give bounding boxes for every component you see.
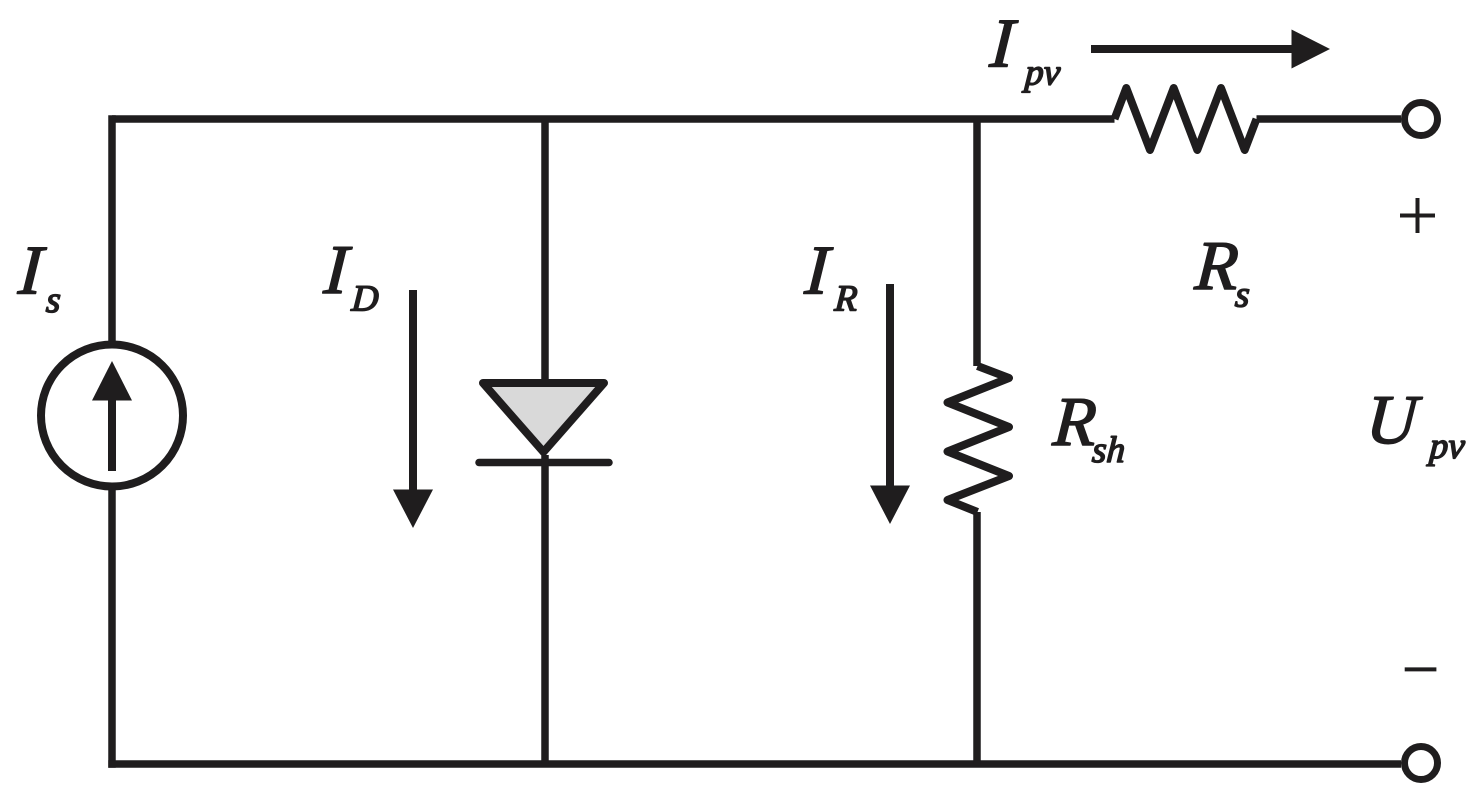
label I_s (17, 248, 47, 294)
wire shunt branch upper (973, 119, 981, 366)
wire left branch lower (108, 486, 116, 768)
arrow I_pv (1091, 30, 1330, 69)
minus sign (1405, 667, 1437, 671)
label I_D (323, 247, 353, 293)
label I_pv (989, 21, 1019, 67)
arrow I_R (870, 284, 910, 524)
label R_s (1194, 243, 1238, 289)
wire top rail left (112, 115, 1115, 123)
wire diode branch lower (541, 455, 549, 764)
diode cathode bar (479, 459, 609, 467)
label R_sh (1052, 399, 1096, 445)
terminal negative (1405, 747, 1438, 780)
current source I_s circle (41, 345, 183, 487)
current source arrow (108, 398, 116, 471)
label I_R (804, 248, 834, 294)
terminal positive (1405, 103, 1438, 136)
resistor R_s (1115, 88, 1257, 150)
wire shunt branch lower (973, 512, 981, 764)
plus sign (1400, 198, 1435, 233)
label U_pv (1373, 397, 1423, 444)
wire left branch upper (108, 115, 116, 345)
wire bottom rail (108, 760, 1401, 768)
wire top rail right (1257, 115, 1402, 123)
arrow I_D (393, 290, 433, 528)
wire diode branch upper (541, 119, 549, 380)
resistor R_sh (948, 366, 1010, 512)
diode D triangle (483, 383, 604, 452)
